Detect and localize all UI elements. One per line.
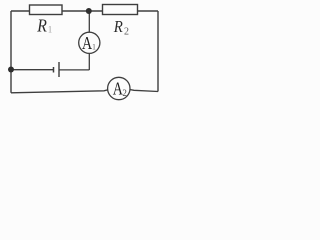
svg-text:2: 2 xyxy=(124,26,129,37)
svg-text:R: R xyxy=(36,16,47,36)
svg-text:1: 1 xyxy=(48,25,53,35)
resistor R2 box xyxy=(103,5,138,15)
battery cell : short plate xyxy=(53,67,55,73)
svg-text:1: 1 xyxy=(92,42,96,51)
node : left junction dot xyxy=(8,67,14,73)
battery cell : long plate xyxy=(58,62,60,77)
wire : A1 branch vertical xyxy=(88,11,90,70)
node : top junction dot xyxy=(86,8,92,14)
wire : outer loop bottom xyxy=(11,89,158,93)
wire : outer loop right xyxy=(157,11,159,92)
wire : outer loop top xyxy=(11,10,158,12)
wire : battery branch horizontal right xyxy=(59,69,89,71)
ammeter A1 circle xyxy=(79,32,100,53)
wire : battery branch horizontal left xyxy=(11,69,54,71)
svg-text:A: A xyxy=(82,34,93,53)
wire : outer loop left xyxy=(10,11,12,93)
ammeter A2 circle xyxy=(108,77,130,99)
resistor R1 box xyxy=(30,5,63,15)
svg-text:2: 2 xyxy=(122,88,127,98)
svg-text:R: R xyxy=(113,18,123,36)
